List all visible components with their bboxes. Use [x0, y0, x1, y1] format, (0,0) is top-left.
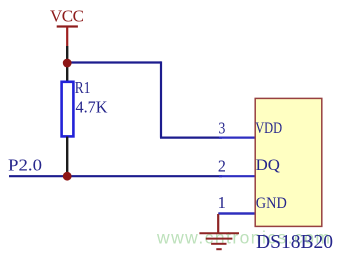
ground symbol bar 1	[199, 232, 239, 234]
junction dot at P2.0 node	[63, 172, 72, 181]
svg-text:VDD: VDD	[255, 120, 282, 137]
svg-text:2: 2	[218, 156, 226, 175]
IC U1 DS18B20 body	[255, 98, 322, 226]
pin 2 line	[219, 175, 255, 177]
wire DQ net P2.0 horizontal	[9, 175, 222, 177]
resistor R1	[62, 82, 74, 137]
ground symbol bar 4	[216, 248, 221, 250]
wire VDD net vertical	[160, 61, 162, 137]
wire GND pin to ground	[218, 212, 255, 214]
wire VDD net horizontal top	[67, 61, 161, 63]
svg-text:DS18B20: DS18B20	[256, 231, 333, 253]
ground symbol bar 2	[206, 238, 233, 240]
svg-text:GND: GND	[256, 195, 287, 212]
wire VCC vertical to resistor	[66, 46, 68, 82]
wire resistor bottom to P2.0 net	[66, 137, 68, 177]
svg-text:P2.0: P2.0	[8, 156, 42, 175]
ground symbol stem	[217, 214, 219, 233]
svg-text:1: 1	[218, 193, 227, 212]
svg-text:DQ: DQ	[256, 157, 280, 174]
svg-text:R1: R1	[75, 78, 91, 97]
svg-text:4.7K: 4.7K	[76, 97, 109, 116]
pin 3 line	[219, 137, 255, 139]
power port VCC bar	[57, 25, 78, 27]
pin 1 line	[219, 212, 255, 214]
wire VDD net horizontal to pin 3	[160, 137, 222, 139]
svg-text:3: 3	[218, 119, 225, 138]
ground symbol bar 3	[211, 243, 226, 245]
svg-text:VCC: VCC	[50, 6, 84, 25]
junction dot at VCC node	[63, 59, 72, 68]
power port VCC stem	[66, 27, 68, 46]
